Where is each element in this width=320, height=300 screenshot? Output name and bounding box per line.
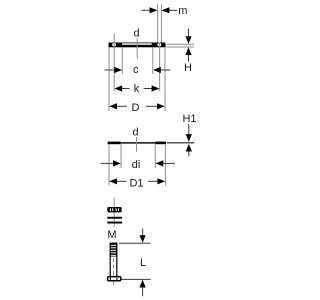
L upper arrow	[142, 229, 144, 236]
D right arrow	[157, 103, 165, 109]
gasket left thick segment	[108, 142, 121, 145]
H1 lower arrow	[186, 144, 192, 152]
d centerline (middle)	[136, 137, 138, 152]
bolt threaded portion	[110, 243, 117, 257]
H1 upper arrow	[188, 124, 190, 135]
k right arrow	[152, 85, 160, 91]
L extension line bottom	[121, 278, 150, 280]
centerline below head	[113, 281, 115, 284]
svg-text:d: d	[132, 126, 138, 138]
m dimension right arrow	[169, 9, 177, 11]
D dimension line	[117, 105, 127, 107]
d centerline top flange	[136, 39, 138, 59]
D1 left arrow	[109, 178, 117, 184]
bolt head inner line left	[109, 277, 111, 280]
svg-text:di: di	[132, 159, 141, 171]
svg-text:D: D	[132, 102, 140, 114]
stack centerline	[113, 198, 115, 228]
k left arrow	[114, 85, 122, 91]
c extension line left	[121, 47, 123, 74]
H extension line top	[167, 43, 195, 45]
washer 2	[107, 222, 122, 224]
di dimension left arrow	[101, 162, 114, 164]
nut cross-section	[107, 207, 121, 212]
D left arrow	[109, 103, 117, 109]
left bolt hole (white)	[112, 43, 116, 46]
gasket right thick segment	[155, 142, 166, 145]
D1 dimension line	[117, 180, 127, 182]
L extension line top	[119, 242, 151, 244]
svg-text:m: m	[178, 5, 187, 17]
m dimension left arrow	[142, 9, 151, 11]
di dimension right arrow	[163, 162, 175, 164]
svg-text:H: H	[184, 62, 192, 74]
D1 extension line left	[108, 144, 110, 185]
D extension line left	[108, 47, 110, 111]
di extension line right	[154, 144, 156, 168]
sealing groove slot (white)	[122, 43, 152, 45]
thread dashes	[111, 245, 116, 246]
di extension line left	[120, 144, 122, 168]
k extension line right / hole centerline	[159, 43, 161, 92]
k dimension line	[122, 88, 130, 90]
right bolt hole (white)	[158, 43, 162, 46]
left hole centerline through bar	[113, 34, 115, 48]
H dimension lower arrow	[185, 47, 191, 55]
c extension line right	[152, 47, 154, 74]
gasket thin web	[121, 142, 156, 143]
c dimension right arrow	[161, 69, 171, 71]
L lower arrow	[140, 280, 146, 288]
bolt head inner line right	[116, 277, 118, 280]
D1 right arrow	[157, 178, 165, 184]
bolt shank outline	[110, 243, 117, 276]
D extension line right	[164, 47, 166, 111]
H extension line bottom	[167, 46, 195, 48]
m extension line left	[157, 4, 159, 43]
washer 1	[107, 217, 122, 219]
svg-text:D1: D1	[129, 178, 143, 190]
svg-text:L: L	[140, 257, 146, 269]
svg-text:H1: H1	[182, 113, 196, 125]
nut thread dashes	[110, 208, 111, 211]
H dimension upper arrow	[188, 29, 190, 37]
shank centerline dashes	[113, 258, 115, 276]
k extension line left	[113, 47, 115, 91]
svg-text:k: k	[134, 83, 140, 95]
svg-text:c: c	[133, 64, 139, 76]
svg-text:d: d	[133, 28, 139, 40]
svg-text:M: M	[107, 229, 116, 241]
c dimension left arrow	[105, 69, 115, 71]
H1 extension line	[167, 142, 195, 144]
m extension line right	[160, 4, 162, 43]
flange bar body	[109, 43, 166, 48]
bolt head	[108, 277, 121, 281]
D1 extension line right	[164, 144, 166, 185]
